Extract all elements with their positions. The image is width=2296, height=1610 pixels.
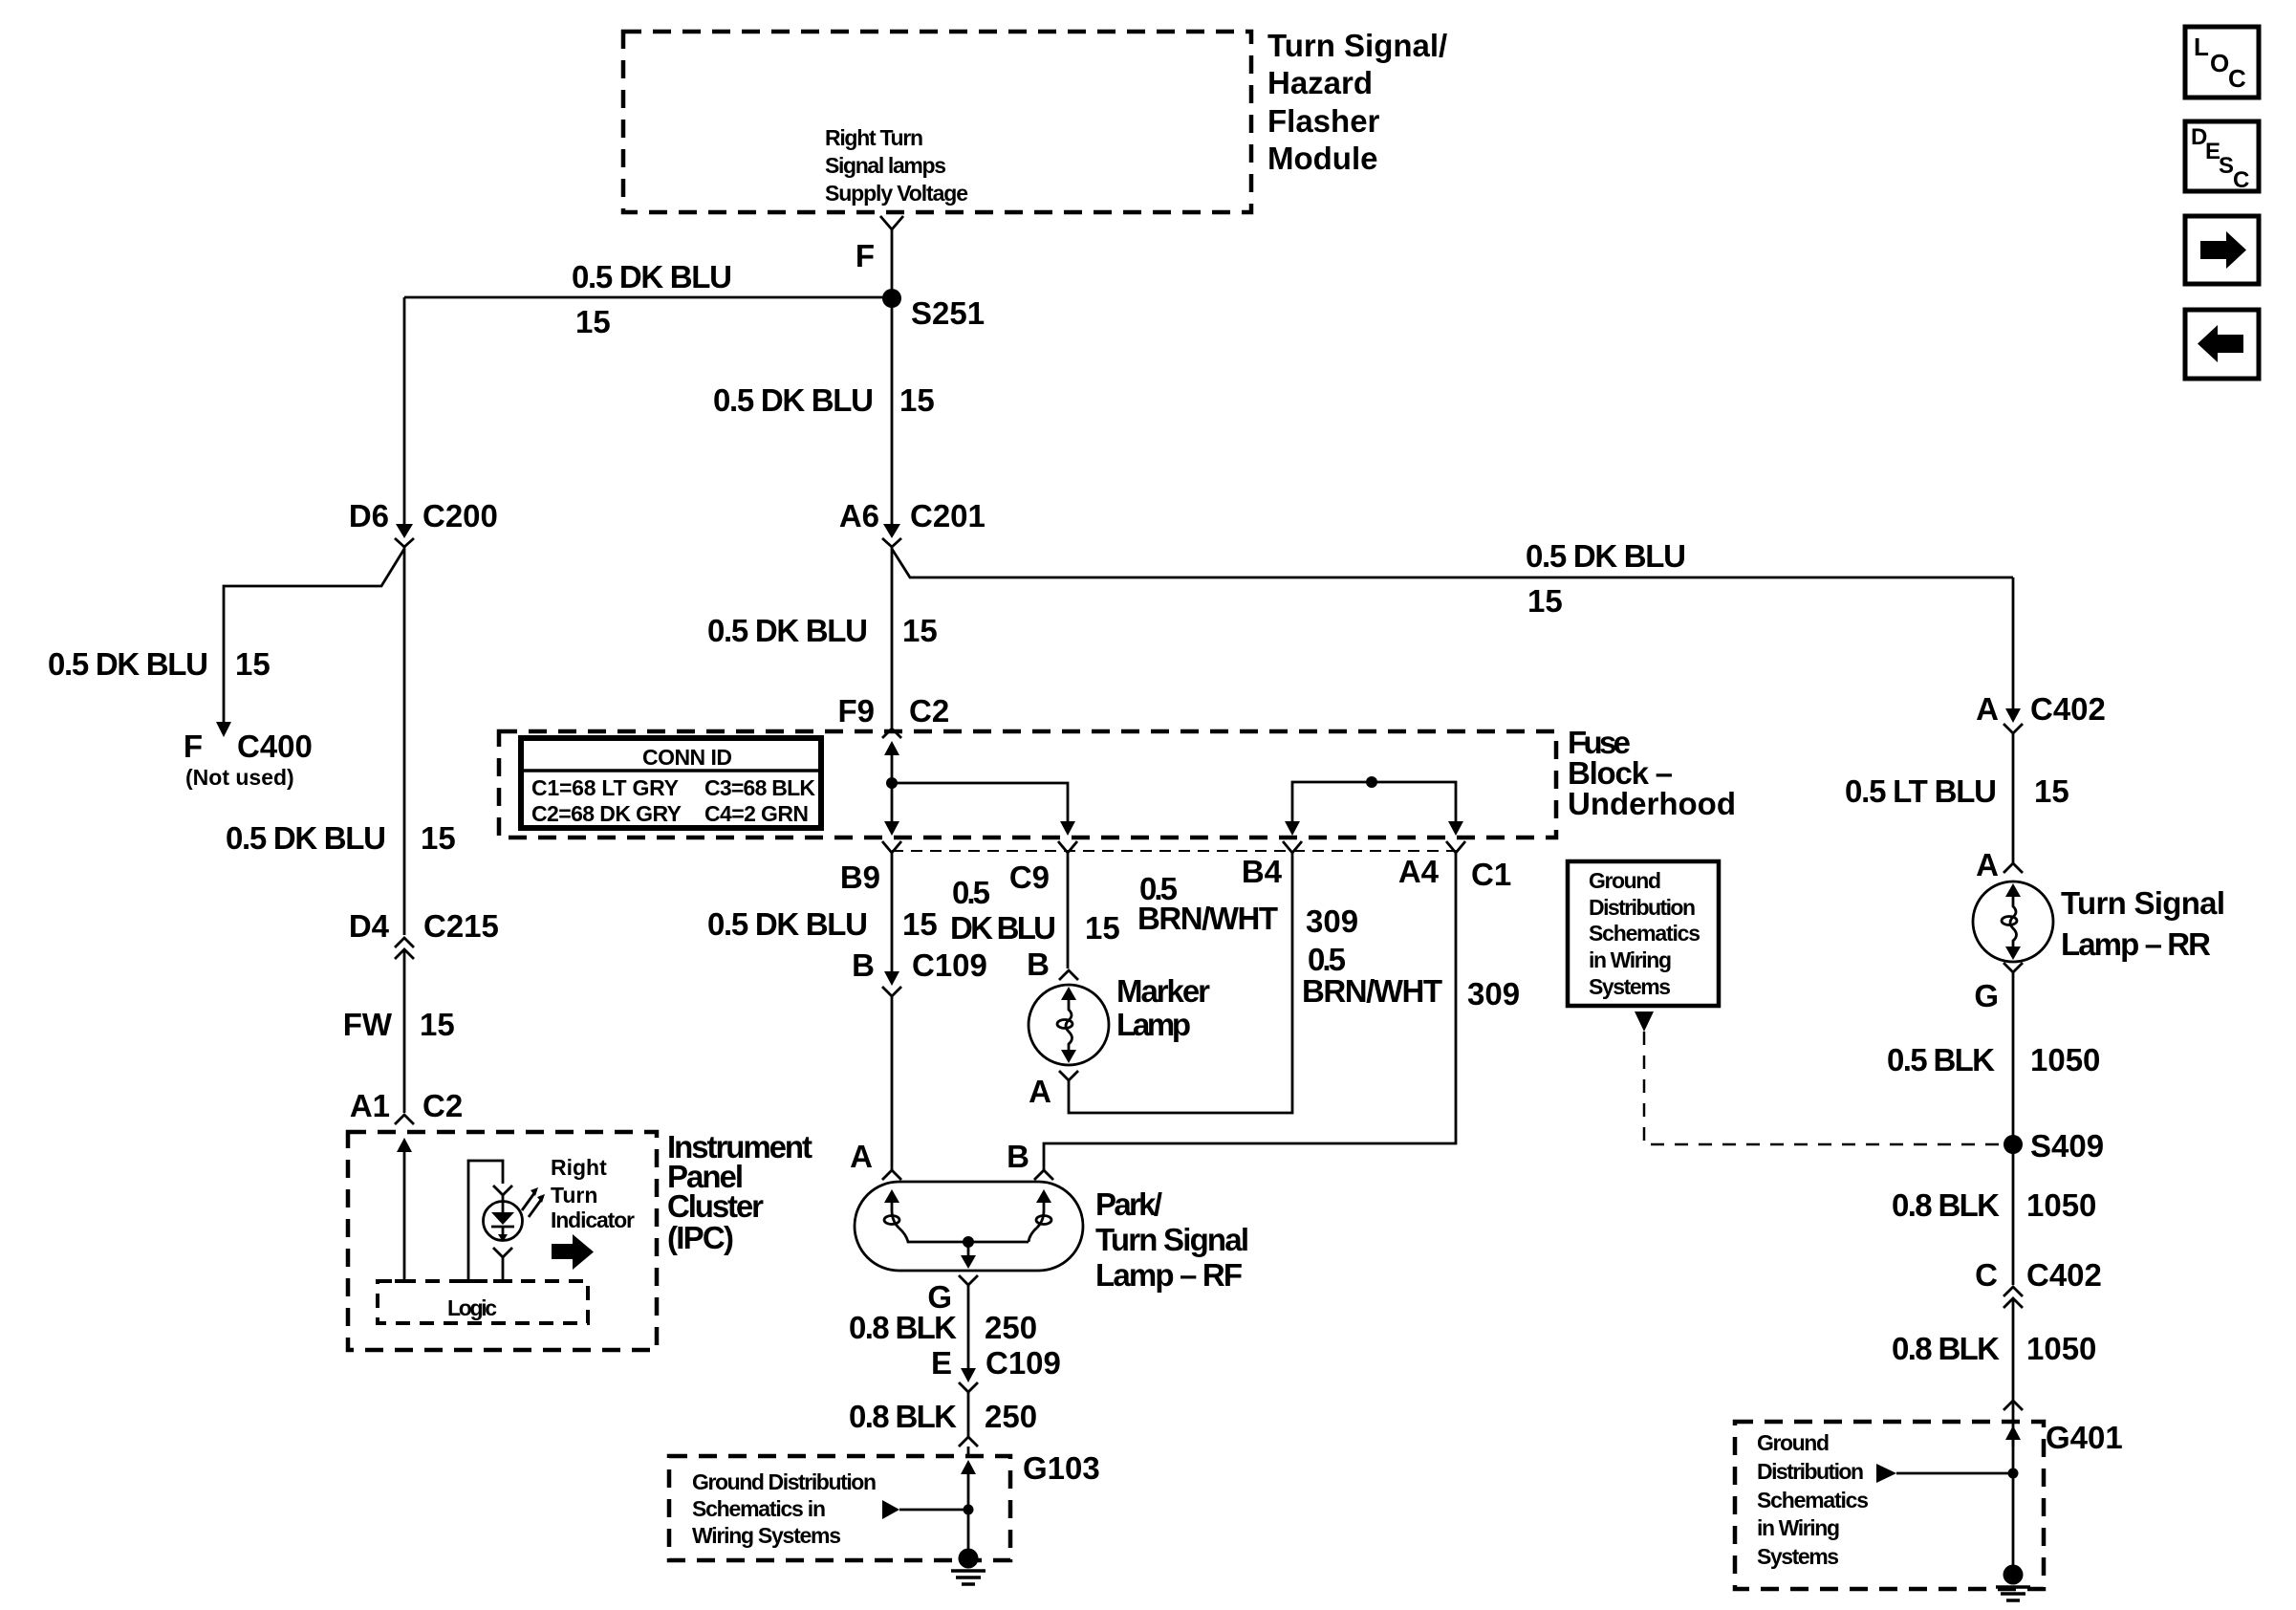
svg-text:Flasher: Flasher bbox=[1267, 103, 1380, 139]
svg-text:0.5 DK BLU: 0.5 DK BLU bbox=[572, 259, 732, 294]
svg-text:Lamp – RF: Lamp – RF bbox=[1095, 1257, 1243, 1293]
marker lamp pin B bbox=[1027, 946, 1078, 982]
svg-text:Ground: Ground bbox=[1757, 1430, 1830, 1455]
svg-text:250: 250 bbox=[985, 1310, 1037, 1345]
svg-text:D4: D4 bbox=[349, 908, 390, 944]
svg-text:C2=68 DK GRY: C2=68 DK GRY bbox=[531, 801, 682, 826]
svg-text:C1: C1 bbox=[1471, 857, 1511, 892]
wire S251 branch left horizontal bbox=[404, 296, 892, 299]
label 0.5 DK BLU 15 (right branch) bbox=[1526, 538, 1686, 619]
wire C215 to C2 (IPC) bbox=[403, 949, 406, 1113]
wire pin F to S251 bbox=[891, 229, 894, 297]
svg-text:Underhood: Underhood bbox=[1568, 786, 1736, 821]
wire C109 to G103 bbox=[967, 1392, 970, 1437]
svg-text:0.8 BLK: 0.8 BLK bbox=[849, 1399, 957, 1434]
svg-text:A: A bbox=[1976, 691, 1999, 727]
svg-text:C2: C2 bbox=[422, 1088, 463, 1123]
svg-text:Lamp – RR: Lamp – RR bbox=[2061, 926, 2211, 962]
wire C402 to RR lamp bbox=[2012, 733, 2015, 863]
svg-text:0.8 BLK: 0.8 BLK bbox=[1892, 1187, 2000, 1223]
LED connector bottom bbox=[493, 1248, 512, 1281]
connector C400 pin F (not used) bbox=[184, 729, 313, 790]
svg-text:0.5 DK BLU: 0.5 DK BLU bbox=[48, 646, 208, 682]
label 0.8 BLK 1050 (lower) bbox=[1892, 1331, 2096, 1366]
label 0.5 DK BLU 15 (B9) bbox=[707, 906, 938, 942]
svg-text:A: A bbox=[850, 1139, 873, 1174]
arrow into C400 bbox=[216, 722, 231, 737]
turn signal / hazard flasher module box bbox=[623, 32, 1251, 212]
svg-text:G: G bbox=[1974, 978, 1999, 1013]
svg-text:C2: C2 bbox=[909, 693, 949, 729]
wire left branch down to C200 bbox=[403, 297, 406, 525]
svg-text:G401: G401 bbox=[2046, 1420, 2123, 1455]
marker lamp bbox=[1029, 985, 1109, 1065]
svg-text:Turn: Turn bbox=[551, 1183, 597, 1207]
marker lamp label bbox=[1116, 973, 1210, 1042]
node S409 bbox=[2004, 1128, 2104, 1164]
wire C109 to RF lamp pin A bbox=[891, 996, 894, 1170]
svg-text:1050: 1050 bbox=[2026, 1331, 2096, 1366]
svg-text:G103: G103 bbox=[1023, 1450, 1100, 1486]
svg-text:Lamp: Lamp bbox=[1116, 1007, 1191, 1042]
connector C109 pin B bbox=[852, 947, 987, 996]
svg-text:0.5 LT BLU: 0.5 LT BLU bbox=[1845, 773, 1997, 809]
svg-text:Signal lamps: Signal lamps bbox=[825, 153, 946, 178]
connector C2 pin A1 bbox=[350, 1088, 463, 1124]
svg-text:in Wiring: in Wiring bbox=[1589, 947, 1672, 972]
svg-text:15: 15 bbox=[421, 820, 456, 856]
fuse block internal wire B9 branch bbox=[884, 741, 1075, 836]
svg-text:BRN/WHT: BRN/WHT bbox=[1137, 901, 1278, 936]
svg-text:A1: A1 bbox=[350, 1088, 390, 1123]
LOC icon button bbox=[2185, 27, 2259, 98]
label 0.5 LT BLU 15 bbox=[1845, 773, 2069, 809]
wire A4 to RF lamp pin B bbox=[1044, 853, 1456, 1170]
svg-text:C: C bbox=[1975, 1257, 1998, 1293]
LED connector top bbox=[493, 1186, 512, 1195]
pin A4 bbox=[1398, 841, 1511, 892]
fuse block internal wire B4-A4 link bbox=[1285, 776, 1463, 836]
RR lamp pin A bbox=[1976, 847, 2023, 882]
ground G103 bbox=[951, 1549, 986, 1585]
svg-text:C: C bbox=[2228, 64, 2246, 93]
svg-text:C109: C109 bbox=[986, 1345, 1061, 1381]
label FW 15 bbox=[343, 1007, 455, 1042]
wire C402 to G401 bbox=[2012, 1298, 2015, 1447]
svg-text:Turn Signal: Turn Signal bbox=[2061, 885, 2225, 921]
connector C215 pin D4 bbox=[349, 908, 499, 959]
wire S251 to C201 bbox=[891, 298, 894, 525]
svg-text:Schematics: Schematics bbox=[1589, 921, 1700, 946]
svg-text:Ground Distribution: Ground Distribution bbox=[692, 1469, 877, 1494]
svg-text:C402: C402 bbox=[2026, 1257, 2102, 1293]
svg-text:C: C bbox=[2233, 167, 2249, 193]
wire C201 down to C2 bbox=[891, 547, 894, 728]
svg-text:15: 15 bbox=[2034, 773, 2069, 809]
RR lamp pin G bbox=[1974, 963, 2023, 1013]
svg-text:Distribution: Distribution bbox=[1757, 1459, 1864, 1484]
label 0.5 DK BLU 15 (C400 branch) bbox=[48, 646, 271, 682]
pin B4 bbox=[1242, 841, 1302, 889]
svg-text:D6: D6 bbox=[349, 498, 389, 533]
IPC name label bbox=[667, 1129, 812, 1255]
DESC icon button bbox=[2185, 121, 2259, 193]
G103 box label bbox=[692, 1469, 877, 1548]
label 0.5 BRN/WHT 309 (B4) bbox=[1137, 871, 1358, 939]
svg-text:1050: 1050 bbox=[2026, 1187, 2096, 1223]
node S251 bbox=[882, 289, 985, 331]
svg-text:0.5 DK BLU: 0.5 DK BLU bbox=[1526, 538, 1686, 574]
LED light rays bbox=[522, 1187, 545, 1217]
label 0.5 DK BLU 15 (C200 to C215) bbox=[226, 820, 456, 856]
wire marker lamp A to B4 bbox=[1069, 853, 1292, 1113]
svg-text:0.8 BLK: 0.8 BLK bbox=[849, 1310, 957, 1345]
svg-text:CONN ID: CONN ID bbox=[642, 745, 732, 770]
connector C402 pin C bbox=[1975, 1257, 2102, 1308]
svg-text:FW: FW bbox=[343, 1007, 393, 1042]
wire B9 to C109 bbox=[891, 853, 894, 971]
svg-text:S251: S251 bbox=[911, 295, 985, 331]
ground distribution schematics box (right) bbox=[1568, 861, 1719, 1006]
next arrow icon button bbox=[2185, 216, 2259, 284]
svg-text:DK BLU: DK BLU bbox=[950, 910, 1056, 946]
svg-text:(Not used): (Not used) bbox=[185, 765, 294, 790]
svg-text:0.5 DK BLU: 0.5 DK BLU bbox=[707, 906, 868, 942]
svg-text:15: 15 bbox=[902, 613, 938, 648]
wire A1 into logic bbox=[397, 1138, 412, 1281]
svg-text:A: A bbox=[1976, 847, 1999, 882]
svg-text:F: F bbox=[184, 729, 203, 764]
label 0.8 BLK 250 (to G103) bbox=[849, 1399, 1037, 1434]
svg-text:Cluster: Cluster bbox=[667, 1188, 764, 1224]
RF lamp pin G bbox=[927, 1275, 978, 1315]
svg-text:Schematics in: Schematics in bbox=[692, 1496, 826, 1521]
svg-text:A4: A4 bbox=[1398, 854, 1440, 889]
svg-text:1050: 1050 bbox=[2030, 1042, 2100, 1077]
fuse block name label bbox=[1568, 725, 1736, 821]
wire G to C109 bbox=[967, 1285, 970, 1368]
svg-text:15: 15 bbox=[235, 646, 271, 682]
svg-text:0.5: 0.5 bbox=[952, 875, 990, 910]
RF lamp pin A connector bbox=[850, 1139, 901, 1180]
connector C201 pin A6 bbox=[839, 498, 986, 547]
G401 ground distribution box bbox=[1735, 1420, 2123, 1589]
svg-text:B: B bbox=[1027, 946, 1050, 982]
svg-text:Right: Right bbox=[551, 1155, 607, 1180]
svg-text:Turn Signal: Turn Signal bbox=[1095, 1222, 1249, 1257]
module name label bbox=[1267, 28, 1447, 176]
connector C109 pin E bbox=[931, 1345, 1061, 1392]
RF lamp label bbox=[1095, 1186, 1249, 1293]
svg-text:15: 15 bbox=[575, 304, 611, 339]
previous arrow icon button bbox=[2185, 310, 2259, 379]
connector C200 pin D6 bbox=[349, 498, 498, 547]
svg-text:L: L bbox=[2194, 33, 2209, 61]
svg-text:C215: C215 bbox=[423, 908, 499, 944]
svg-text:250: 250 bbox=[985, 1399, 1037, 1434]
svg-text:15: 15 bbox=[1085, 910, 1120, 946]
svg-text:Module: Module bbox=[1267, 141, 1377, 176]
svg-text:C9: C9 bbox=[1009, 859, 1050, 895]
svg-text:0.5 DK BLU: 0.5 DK BLU bbox=[707, 613, 868, 648]
wire C200 to C400 branch bbox=[224, 547, 404, 935]
black right arrow symbol bbox=[552, 1234, 594, 1270]
svg-text:C200: C200 bbox=[422, 498, 498, 533]
marker lamp pin A bbox=[1029, 1071, 1078, 1109]
connector C402 pin A bbox=[1976, 691, 2106, 733]
svg-text:(IPC): (IPC) bbox=[667, 1220, 734, 1255]
svg-text:A: A bbox=[1029, 1074, 1051, 1109]
svg-text:B9: B9 bbox=[840, 859, 880, 895]
connector into G103 bbox=[959, 1437, 978, 1456]
svg-text:0.8 BLK: 0.8 BLK bbox=[1892, 1331, 2000, 1366]
svg-text:BRN/WHT: BRN/WHT bbox=[1302, 973, 1442, 1009]
G401 box label bbox=[1757, 1430, 1869, 1569]
right turn indicator label bbox=[551, 1155, 635, 1232]
svg-text:309: 309 bbox=[1306, 903, 1358, 939]
pin B9 bbox=[840, 841, 901, 895]
svg-text:15: 15 bbox=[1527, 583, 1563, 619]
dashed reference to S409 bbox=[1635, 1012, 2004, 1144]
connector into G401 bbox=[2004, 1401, 2023, 1410]
wire G to S409 bbox=[2012, 972, 2015, 1144]
svg-text:Distribution: Distribution bbox=[1589, 895, 1696, 920]
G103 internal wire bbox=[882, 1460, 976, 1556]
svg-text:15: 15 bbox=[899, 382, 935, 418]
svg-text:C1=68 LT GRY: C1=68 LT GRY bbox=[531, 775, 679, 800]
label 0.5 DK BLU 15 (C201 to C2) bbox=[707, 613, 938, 648]
CONN ID table bbox=[521, 738, 821, 828]
label 0.8 BLK 1050 (upper) bbox=[1892, 1187, 2096, 1223]
svg-text:Systems: Systems bbox=[1757, 1544, 1839, 1569]
label 0.5 DK BLU 15 (top left branch) bbox=[572, 259, 732, 339]
svg-text:F9: F9 bbox=[837, 693, 875, 729]
module pin function label bbox=[825, 125, 968, 206]
wire right branch down to C402 bbox=[2012, 577, 2015, 708]
svg-text:Park/: Park/ bbox=[1095, 1186, 1162, 1222]
svg-text:Turn Signal/: Turn Signal/ bbox=[1267, 28, 1447, 63]
svg-text:C3=68 BLK: C3=68 BLK bbox=[704, 775, 815, 800]
svg-text:0.5 BLK: 0.5 BLK bbox=[1887, 1042, 1995, 1077]
wire S409 to C402 C bbox=[2012, 1144, 2015, 1285]
label 0.5 DK BLU 15 (S251 to C201) bbox=[713, 382, 935, 418]
label 0.8 BLK 250 (G) bbox=[849, 1310, 1037, 1345]
ground G401 bbox=[1996, 1565, 2030, 1601]
svg-text:C201: C201 bbox=[910, 498, 986, 533]
right turn indicator LED bbox=[484, 1195, 523, 1242]
logic box bbox=[378, 1281, 588, 1323]
svg-text:C402: C402 bbox=[2030, 691, 2106, 727]
G401 internal wire bbox=[1876, 1425, 2021, 1573]
svg-text:in Wiring: in Wiring bbox=[1757, 1515, 1840, 1540]
svg-text:C400: C400 bbox=[237, 729, 313, 764]
svg-text:C109: C109 bbox=[912, 947, 987, 983]
svg-text:F: F bbox=[856, 238, 875, 273]
label 0.5 BLK 1050 bbox=[1887, 1042, 2100, 1077]
svg-text:Supply Voltage: Supply Voltage bbox=[825, 181, 968, 206]
svg-text:0.5: 0.5 bbox=[1308, 942, 1346, 977]
svg-text:Right Turn: Right Turn bbox=[825, 125, 923, 150]
svg-text:C4=2 GRN: C4=2 GRN bbox=[704, 801, 809, 826]
svg-text:S: S bbox=[2219, 153, 2234, 179]
turn signal lamp RR bbox=[1973, 881, 2053, 962]
svg-text:15: 15 bbox=[902, 906, 938, 942]
svg-text:15: 15 bbox=[420, 1007, 455, 1042]
pin F connector bbox=[856, 216, 903, 273]
svg-text:A6: A6 bbox=[839, 498, 879, 533]
svg-text:Logic: Logic bbox=[447, 1295, 497, 1320]
svg-text:Marker: Marker bbox=[1116, 973, 1210, 1009]
instrument panel cluster box bbox=[348, 1132, 657, 1350]
svg-text:B: B bbox=[852, 947, 875, 983]
svg-text:E: E bbox=[931, 1345, 952, 1381]
svg-text:B: B bbox=[1007, 1139, 1029, 1174]
label 0.5 DK BLU 15 (C9) bbox=[950, 875, 1120, 946]
pin C9 bbox=[1009, 841, 1077, 895]
svg-text:Ground: Ground bbox=[1589, 868, 1661, 893]
wire C201 right branch to C402 bbox=[892, 549, 2013, 577]
svg-text:309: 309 bbox=[1467, 976, 1520, 1012]
svg-text:O: O bbox=[2210, 49, 2229, 77]
label 0.5 BRN/WHT 309 (A4) bbox=[1302, 942, 1520, 1012]
svg-text:S409: S409 bbox=[2030, 1128, 2104, 1164]
svg-text:0.5 DK BLU: 0.5 DK BLU bbox=[226, 820, 386, 856]
svg-text:Wiring Systems: Wiring Systems bbox=[692, 1523, 841, 1548]
park/turn signal lamp RF bbox=[855, 1182, 1083, 1271]
svg-text:Indicator: Indicator bbox=[551, 1207, 635, 1232]
svg-text:Hazard: Hazard bbox=[1267, 65, 1373, 100]
fuse block underhood box bbox=[499, 731, 1556, 838]
wire C9 to marker lamp bbox=[1067, 853, 1070, 968]
RF lamp pin B connector bbox=[1007, 1139, 1053, 1180]
svg-text:Schematics: Schematics bbox=[1757, 1488, 1869, 1512]
svg-text:B4: B4 bbox=[1242, 854, 1283, 889]
RR lamp label bbox=[2061, 885, 2225, 962]
svg-text:Systems: Systems bbox=[1589, 974, 1671, 999]
G103 ground distribution box bbox=[669, 1450, 1100, 1560]
connector C2 pin F9 bbox=[837, 693, 949, 738]
connector face dashed line bbox=[892, 850, 1462, 852]
wire LED branch bbox=[468, 1161, 503, 1281]
svg-text:0.5 DK BLU: 0.5 DK BLU bbox=[713, 382, 874, 418]
